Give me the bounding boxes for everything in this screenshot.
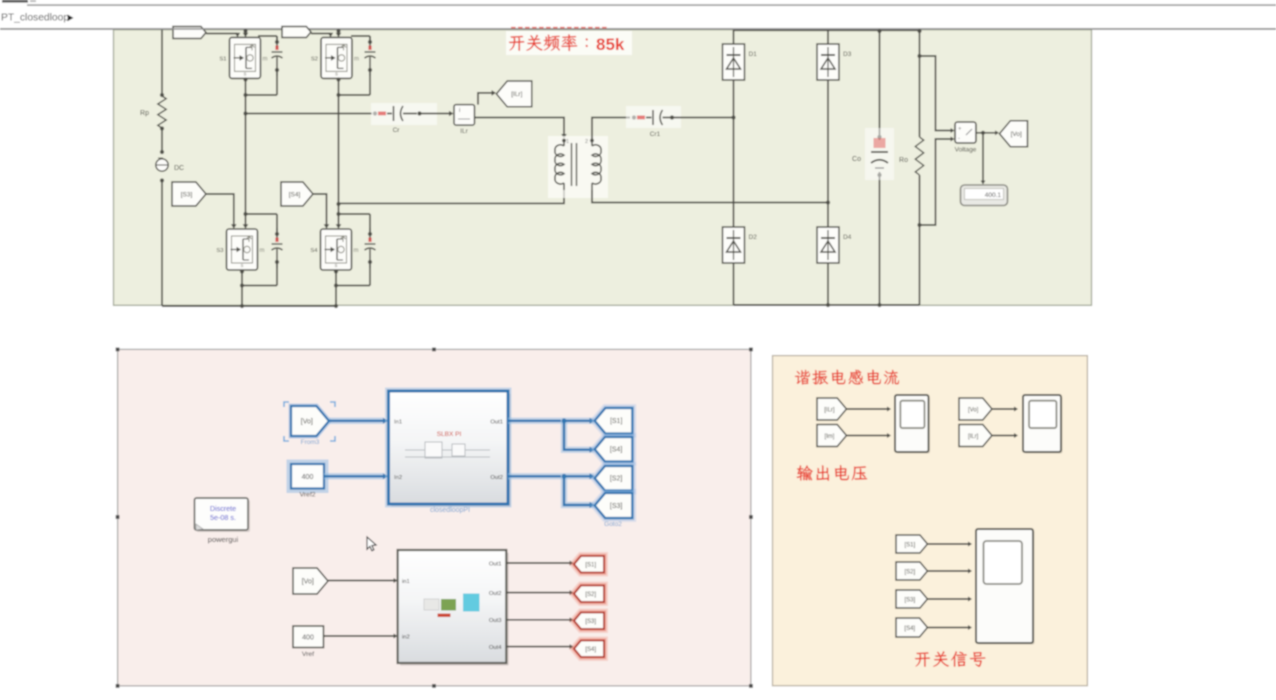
display block [961,185,1008,206]
diode D3 [817,44,852,80]
svg-text:400: 400 [302,474,314,481]
svg-text:[Vo]: [Vo] [1011,131,1022,138]
goto tag [S4] (highlighted red) [574,641,604,658]
goto tag [S4] (selected) [595,437,633,462]
capacitor Cr1 (secondary blocking) [637,116,645,120]
wire: S1 source to leg A [245,78,247,95]
svg-text:1: 1 [566,139,569,145]
wire: gate S2 [311,33,331,35]
wire: sig1 [928,543,969,545]
svg-text:S2: S2 [311,56,318,62]
scope Scope3 (switch signals) [976,529,1035,645]
svg-text:[ILr]: [ILr] [968,434,979,440]
svg-text:s: s [241,263,244,269]
svg-text:s: s [335,71,338,77]
svg-text:[Vo]: [Vo] [302,578,314,585]
svg-text:[S4]: [S4] [610,447,623,454]
goto tag [Vo] [1000,121,1028,147]
mouse cursor [367,537,376,551]
wire: DC source branch (left rail) [161,30,163,96]
goto tag [S3] (highlighted red) [574,613,604,630]
svg-text:Out2: Out2 [489,591,502,597]
snubber capacitor C2 (across S2) [365,36,376,76]
goto tag [S1] (highlighted red) [574,556,604,573]
wire: secondary top to Cr1 [592,118,630,141]
svg-text:SLBX PI: SLBX PI [437,431,462,438]
transformer T1 [548,136,608,198]
wire: pwm out1 [506,562,570,564]
wire: Cr to Lr sensor [420,113,451,115]
wire: Vo to pwm in1 [328,580,394,582]
svg-text:85k: 85k [596,35,625,54]
wire: pwm out2 [506,592,570,594]
svg-text:PT_closedloop: PT_closedloop [1,12,69,23]
wire: output return bus [734,304,920,306]
svg-text:i: i [459,108,460,114]
svg-text:[S4]: [S4] [289,191,301,198]
svg-text:Out4: Out4 [489,645,502,651]
svg-text:In2: In2 [394,475,402,481]
wire: sig2 [928,570,969,572]
mosfet S1 [219,37,267,78]
wire: S2 snubber top tie [369,36,371,42]
constant Vref2 (400) [289,462,327,492]
svg-text:s: s [335,263,338,269]
wire: Lr out to transformer primary [475,118,565,136]
svg-text:closedloopPI: closedloopPI [430,507,470,514]
svg-text:[S1]: [S1] [585,563,596,569]
breadcrumb arrow [68,15,74,22]
from tag [ILr] (scope2) [959,425,992,447]
wire: bridge node A to Cr [246,113,373,115]
annotation 谐振电感电流 [795,370,899,385]
wire: D2 anode to bus [733,263,735,305]
annotation highlight behind title [506,31,632,55]
from tag [S2] (cut off at top) [282,27,311,38]
wire: D1-D2 rail [733,80,735,227]
svg-text:powergui: powergui [208,535,239,544]
goto tag [ILr] [496,81,531,107]
svg-text:[S1]: [S1] [905,542,916,548]
wire: gate S4 [313,194,327,225]
current measurement block Lr [454,105,475,126]
svg-text:[S3]: [S3] [610,503,623,510]
svg-text:m: m [263,56,268,62]
annotation text 开关频率：85k [509,34,588,51]
wire: voltage sense + [920,56,952,131]
svg-text:400.1: 400.1 [985,192,1002,199]
svg-text:Voltage: Voltage [955,147,977,154]
svg-text:S1: S1 [219,56,226,62]
selection brackets around From [Vo] [284,402,335,441]
svg-text:[S4]: [S4] [904,626,915,632]
capacitor Cr (resonant) [378,112,386,116]
svg-text:Co: Co [852,156,861,163]
svg-text:D4: D4 [843,234,852,241]
from tag [S3] [172,182,206,206]
svg-text:s: s [244,71,247,77]
wire: S2 source to leg B [338,78,340,95]
svg-text:S3: S3 [216,248,223,254]
goto tag [S3] (selected) [595,493,633,518]
svg-text:D3: D3 [843,51,852,58]
wire: to scope2 a [992,408,1014,410]
svg-text:-: - [958,136,960,142]
svg-text:[ILr]: [ILr] [511,91,522,98]
snubber capacitor C4 (across S4) [365,228,376,268]
wire: snubber1 tie [246,94,278,96]
wire: pwm out4 [506,646,570,648]
svg-text:S4: S4 [310,248,318,254]
from tag [S4] [281,182,313,206]
svg-text:D1: D1 [749,51,758,58]
mosfet S3 [216,229,264,270]
white halo behind Co [865,128,894,180]
tab bar divider line [27,4,1276,6]
wire: Out2 net [508,473,594,480]
svg-text:m: m [260,248,265,254]
svg-text:Cr: Cr [393,127,401,134]
svg-text:DC: DC [174,165,184,172]
svg-text:[S3]: [S3] [585,619,596,625]
from tag [S1] (sig scope) [896,535,928,553]
wire: Cr1 to rectifier node [672,117,734,119]
wire: Vo to display [982,133,984,181]
svg-text:Ro: Ro [899,157,908,164]
from tag [S2] (sig scope) [896,562,928,580]
svg-text:Goto2: Goto2 [604,521,622,528]
resistor Ro (load) [915,137,923,175]
svg-text:m: m [354,56,359,62]
wire: S1 drain from top bus [245,30,247,34]
top tab label sliver [2,0,28,3]
from tag [Vo] (scope2) [959,398,992,420]
control area (pink panel) [118,349,751,686]
goto tag [S2] (highlighted red) [574,586,604,603]
white halo behind Cr [371,103,437,125]
svg-text:D2: D2 [749,234,758,241]
constant Vref (400) [293,626,324,648]
svg-text:[S2]: [S2] [585,592,596,598]
snubber capacitor C1 (across S1) [272,36,283,76]
wire: to scope1 b [847,435,888,437]
wire: gate S1 [206,33,238,35]
wire: D1 cathode rail [733,30,735,44]
svg-text:Vref: Vref [302,651,314,658]
wire: D3-D4 rail [827,80,829,227]
red title sliver (cut-off line) [511,27,516,29]
svg-text:[S2]: [S2] [610,476,623,483]
svg-text:ILr: ILr [460,128,468,135]
annotation 输出电压 [797,465,867,481]
scope area (cream panel) [773,356,1088,686]
scope Scope2 [1023,395,1063,454]
from tag [S4] (sig scope) [896,618,928,637]
svg-text:[S3]: [S3] [905,597,916,603]
wire: snubber2 tie [339,94,371,96]
svg-text:Out3: Out3 [489,618,502,624]
wire: S4 source to bus [335,270,337,306]
svg-text:5e-08 s.: 5e-08 s. [210,513,236,522]
diode D1 [723,44,758,80]
scope Scope1 [895,395,930,454]
wire: leg A midrail (S1-S3) [245,95,247,225]
wire: S2 drain from top bus [338,30,340,34]
from tag [S1] (cut off at top) [173,27,206,39]
wire: Ro branch [919,31,921,137]
wire: to scope2 b [992,435,1014,437]
svg-text:[Im]: [Im] [824,434,834,440]
resistor Rp [158,96,166,128]
svg-text:[Vo]: [Vo] [301,418,313,425]
wire: secondary bottom to rectifier node2 [592,190,828,203]
goto tag [S2] (selected) [595,466,633,491]
wire: transformer primary return to node B [339,190,565,203]
svg-text:Out1: Out1 [489,561,502,567]
snubber capacitor C3 (across S3) [272,228,283,268]
mosfet S4 [310,229,358,270]
svg-text:From3: From3 [301,439,320,446]
svg-text:Vref2: Vref2 [300,492,316,499]
wire: sig4 [928,627,969,629]
wire: top DC bus [734,29,920,31]
svg-text:Discrete: Discrete [210,504,236,513]
diode D4 [817,227,852,263]
svg-text:400: 400 [302,635,314,642]
wire: gate S3 [206,194,234,225]
mosfet S2 [311,37,359,78]
capacitor Co (output) [871,138,888,168]
svg-text:in2: in2 [402,635,410,641]
wire: Vo to controller In1 [329,418,384,425]
svg-text:2: 2 [585,139,588,145]
powergui block [195,498,251,544]
from tag [Im] (scope1) [817,425,847,447]
svg-text:Out1: Out1 [490,420,503,426]
wire: S1 snubber top tie [276,36,278,42]
wire: D4 anode to bus [827,263,829,305]
svg-text:m: m [354,248,359,254]
wire: Vref2 to controller In2 [324,473,384,480]
wire: bottom DC return bus [162,305,336,307]
from tag [S3] (sig scope) [896,590,928,608]
wire: S4 snubber ties [339,213,371,215]
from tag [ILr] (scope1) [817,398,847,420]
wire: S3 source to bus [241,270,243,306]
from tag [Vo] (selected) [291,406,329,436]
goto tag [S1] (selected) [595,408,633,434]
subsystem PWM generator [398,550,509,666]
wire: Lr measurement to goto [ILr] [478,93,492,105]
wire: pwm out3 [506,619,570,621]
wire: Vref to pwm in2 [324,635,395,637]
DC voltage source DC [156,159,168,171]
svg-text:Rp: Rp [140,110,149,117]
wire: D3 cathode rail [827,30,829,44]
wire: Vo to goto tag [976,132,995,134]
svg-text:in1: in1 [402,579,410,585]
power stage annotation area (green panel) [114,30,1092,306]
annotation 开关信号 [915,651,985,666]
wire: Out1 net [508,418,594,425]
svg-text:In1: In1 [394,420,402,426]
svg-text:+: + [958,127,962,133]
white halo behind Cr1 [626,106,681,128]
wire: S3 snubber ties [246,213,278,215]
svg-text:[S2]: [S2] [905,569,916,575]
wire: voltage sense - [920,139,952,225]
svg-text:[S4]: [S4] [585,647,596,653]
diode D2 [723,227,758,263]
svg-text:Out2: Out2 [490,475,503,481]
svg-text:[S3]: [S3] [181,191,193,198]
subsystem closedloopPI (selected) [389,391,511,514]
wire: sig3 [928,598,969,600]
from tag [Vo] (open loop) [293,568,328,594]
canvas border overlay [0,28,1276,30]
svg-text:[Vo]: [Vo] [968,407,979,413]
voltage measurement block Voltage [955,122,976,143]
svg-text:[S1]: [S1] [610,418,623,425]
svg-text:Cr1: Cr1 [650,131,661,138]
wire: Co branch [879,31,881,140]
wire: to scope1 a [847,408,888,410]
canvas top border [0,28,1276,30]
wire: leg B midrail (S2-S4) [338,95,340,225]
svg-text:[ILr]: [ILr] [824,407,835,413]
